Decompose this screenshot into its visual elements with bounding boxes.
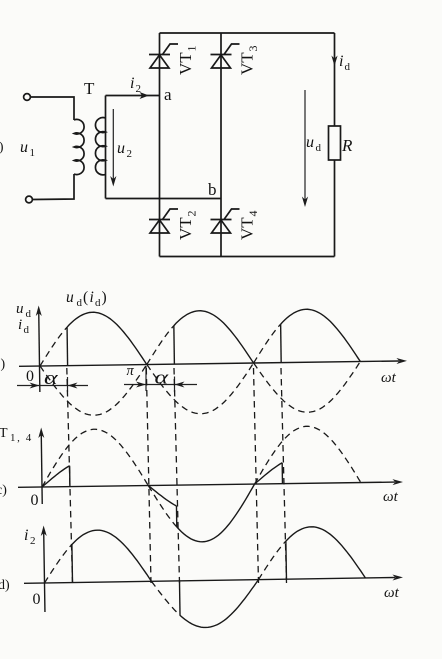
plot b dashed inverse sine 0..pi [40, 365, 147, 416]
plot d jump at pi+alpha [178, 581, 181, 615]
plot c uVT half-sine 2pi..2pi+alpha [254, 463, 282, 484]
svg-text:2: 2 [185, 211, 199, 217]
plot d dashed sine pi..pi+alpha [151, 581, 180, 616]
svg-text:u: u [66, 289, 74, 306]
label VT1 [176, 46, 199, 76]
svg-text:4: 4 [246, 211, 260, 217]
wire bottom rail [160, 256, 335, 258]
svg-text:3: 3 [246, 46, 260, 52]
svg-text:): ) [102, 289, 107, 306]
wire node a lead (i2) [106, 95, 160, 97]
svg-text:0: 0 [33, 591, 41, 608]
plot d i2 curve alpha..pi [72, 529, 152, 582]
plot c x-axis [18, 482, 395, 487]
plot b alpha marker 2 [124, 384, 197, 386]
plot b dashed inverse sine pi..pi+alpha [146, 326, 174, 365]
svg-text:0: 0 [26, 368, 34, 385]
wire primary bottom [33, 174, 75, 200]
svg-text:u: u [20, 139, 28, 156]
plot b ud curve alpha..pi [67, 312, 147, 366]
wire load branch [334, 33, 336, 257]
plot c dashed sine 2pi..3pi [254, 426, 361, 484]
svg-text:0: 0 [31, 492, 39, 509]
svg-text:VT: VT [176, 217, 195, 240]
thyristor VT3 [211, 44, 240, 68]
plot b dashed sine 0..alpha [39, 327, 67, 366]
svg-text:i: i [90, 289, 94, 306]
u2 voltage arrow [112, 109, 114, 180]
guide line at alpha [67, 368, 73, 583]
svg-text:i: i [18, 317, 22, 333]
svg-text:VT: VT [238, 217, 257, 240]
wire branch VT3/VT4 [220, 33, 222, 257]
plot b ud curve pi+alpha..2pi [174, 310, 254, 364]
plot b dashed sine pi..2pi [147, 363, 254, 414]
wire branch VT1/VT2 [159, 33, 161, 257]
plot c drop at pi+alpha [175, 506, 177, 527]
wire primary top [31, 97, 75, 120]
plot c dashed sine pi..pi+alpha [148, 485, 176, 527]
guide line at pi+alpha [174, 368, 180, 583]
plot c drop at alpha [69, 466, 71, 487]
svg-text:u: u [117, 140, 125, 157]
svg-text:c): c) [0, 483, 7, 498]
transformer T secondary winding [105, 96, 107, 199]
svg-text:): ) [1, 357, 6, 372]
svg-text:2: 2 [127, 148, 133, 160]
plot d dashed sine 0..alpha [44, 544, 73, 583]
thyristor VT1 [149, 44, 178, 68]
plot b y-axis [39, 312, 40, 392]
i2 current arrow [140, 92, 150, 99]
plot b ud jump at alpha [66, 327, 69, 365]
svg-text:2: 2 [136, 83, 142, 95]
label VT4 [238, 211, 261, 241]
svg-text:VT: VT [238, 52, 257, 75]
plot b dashed sine 2pi..2pi+alpha [253, 324, 281, 363]
svg-text:T: T [0, 426, 8, 441]
guide line at pi [146, 368, 151, 583]
plot d x-axis [24, 577, 395, 583]
plot b x-axis [19, 361, 399, 366]
transformer T primary winding [74, 119, 84, 174]
svg-text:d): d) [0, 578, 10, 593]
svg-text:d: d [77, 297, 83, 309]
svg-text:ωt: ωt [383, 489, 399, 505]
svg-text:VT: VT [176, 52, 195, 75]
svg-text:d: d [24, 324, 30, 336]
svg-text:1: 1 [30, 147, 36, 159]
svg-text:T: T [84, 79, 95, 98]
resistor R [329, 126, 341, 160]
svg-text:1, 4: 1, 4 [10, 432, 33, 444]
thyristor VT4 [211, 209, 240, 233]
svg-text:u: u [306, 134, 314, 151]
plot d i2 curve pi+alpha..2pi [179, 580, 259, 628]
plot d dashed sine 2pi..2pi+alpha [258, 541, 287, 580]
plot b ud jump at pi+alpha [173, 326, 176, 364]
plot c uVT full sine pi+alpha..2pi [176, 484, 255, 542]
svg-text:b: b [208, 180, 217, 199]
svg-text:i: i [130, 75, 134, 92]
plot d i2 curve 2pi+alpha..3pi [286, 526, 366, 579]
svg-text:2: 2 [30, 535, 36, 547]
svg-text:1: 1 [185, 46, 199, 52]
svg-text:R: R [341, 136, 353, 155]
svg-text:d: d [26, 308, 32, 320]
plot c drop at 2pi+alpha [281, 463, 283, 484]
svg-text:α: α [44, 368, 59, 389]
wire secondary bottom to node b [106, 198, 222, 200]
svg-text:u: u [16, 301, 24, 317]
svg-text:d: d [345, 61, 351, 73]
plot d jump at 2pi+alpha [285, 541, 288, 579]
ud voltage arrow [304, 90, 306, 200]
plot b alpha marker 1 [17, 385, 88, 387]
terminal P1 [24, 94, 31, 101]
plot d y-axis [44, 532, 45, 612]
label VT2 [176, 211, 199, 241]
guide line at 2pi [254, 368, 259, 583]
svg-text:a: a [164, 85, 172, 104]
plot c uVT half-sine 0..alpha [42, 466, 70, 487]
svg-text:π: π [127, 363, 135, 379]
plot b ud jump at 2pi+alpha [280, 324, 283, 362]
svg-text:d: d [316, 142, 322, 154]
id current arrow [331, 56, 337, 67]
label VT3 [238, 46, 261, 76]
svg-text:(: ( [83, 289, 88, 306]
plot b dashed inverse sine 2pi..3pi [254, 362, 361, 413]
guide line at 2pi+alpha [281, 368, 287, 583]
svg-text:): ) [0, 140, 4, 155]
svg-text:i: i [339, 53, 343, 70]
wire top rail [160, 32, 335, 34]
svg-text:d: d [95, 297, 101, 309]
svg-text:i: i [24, 527, 28, 544]
thyristor VT2 [149, 209, 178, 233]
svg-text:ωt: ωt [384, 585, 400, 601]
terminal P2 [26, 196, 33, 203]
plot c dashed sine 0..pi [41, 429, 148, 487]
plot d jump at alpha [71, 544, 74, 582]
plot c y-axis [40, 434, 43, 504]
plot b ud curve 2pi+alpha..3pi [280, 309, 360, 363]
plot c uVT half-sine pi..pi+alpha [148, 485, 176, 506]
svg-text:ωt: ωt [381, 370, 397, 386]
